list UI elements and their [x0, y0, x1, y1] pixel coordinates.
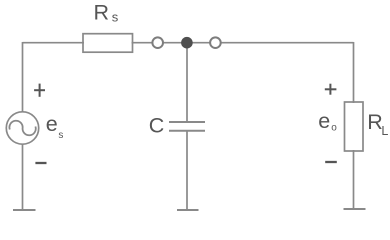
source es circle — [6, 112, 38, 144]
wire top-left horizontal from source branch to Rs — [23, 42, 85, 44]
minus sign below source es — [35, 162, 46, 164]
wire between node dot and right terminal — [192, 42, 211, 44]
svg-text:s: s — [112, 10, 119, 25]
capacitor C top plate — [169, 121, 205, 123]
svg-text:C: C — [149, 114, 165, 138]
plus sign at output eo — [325, 88, 337, 90]
svg-text:e: e — [318, 109, 330, 133]
wire between terminal and node dot — [163, 42, 182, 44]
wire left vertical lower (source to bottom terminal) — [22, 144, 24, 210]
wire capacitor branch upper — [186, 45, 188, 123]
plus sign at source es — [34, 89, 45, 91]
wire top-right horizontal to RL branch — [221, 42, 354, 44]
wire left vertical upper (source to top wire) — [22, 42, 24, 113]
node junction dot — [181, 37, 193, 49]
svg-text:o: o — [331, 123, 337, 134]
wire right vertical lower (RL to bottom terminal) — [353, 150, 355, 209]
ground terminal bar left — [13, 209, 36, 211]
svg-text:L: L — [381, 124, 388, 138]
resistor RL body — [345, 102, 364, 151]
ground terminal bar middle — [177, 209, 199, 211]
wire Rs right to terminal circle — [132, 42, 153, 44]
wire right vertical upper (top wire to RL) — [353, 42, 355, 103]
resistor RS body — [83, 34, 133, 53]
minus sign below eo — [325, 161, 337, 163]
svg-text:R: R — [94, 0, 110, 24]
svg-text:s: s — [58, 130, 63, 141]
terminal (open circle) left of node — [152, 37, 163, 48]
source es sine wave — [9, 121, 35, 136]
ground terminal bar right — [344, 208, 366, 210]
wire capacitor branch lower — [186, 131, 188, 211]
svg-text:e: e — [46, 112, 58, 136]
terminal (open circle) right of node — [210, 37, 221, 48]
capacitor C bottom plate — [169, 130, 205, 132]
